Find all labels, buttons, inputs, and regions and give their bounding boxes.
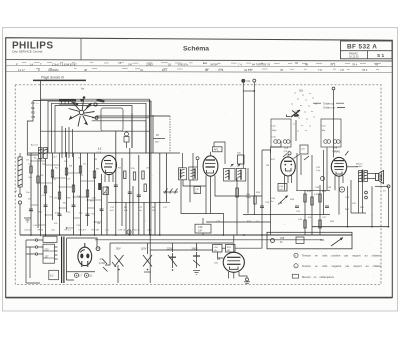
- volume pot arrow: [278, 196, 288, 205]
- svg-text:78 4: 78 4: [352, 62, 358, 66]
- svg-text:78: 78: [280, 68, 283, 72]
- svg-text:DC —: DC —: [31, 101, 39, 105]
- stray contact marks: [103, 259, 108, 272]
- svg-text:1,2kΩ: 1,2kΩ: [99, 263, 105, 265]
- band indicator bar Plage Sonore III: [33, 76, 86, 91]
- svg-text:C59: C59: [280, 238, 285, 240]
- terminal 18: [84, 273, 92, 278]
- parts table dash marks: [22, 63, 381, 70]
- IF transformer S10 secondary: [236, 164, 246, 181]
- resistor R1: [30, 166, 32, 173]
- svg-text:L1: L1: [98, 147, 102, 151]
- wire right top vertical: [332, 87, 335, 157]
- fuse circle: [96, 247, 100, 251]
- capacitor C7: [72, 205, 76, 207]
- svg-text:7e 3: 7e 3: [330, 62, 336, 66]
- svg-text:Accord: Accord: [31, 144, 38, 147]
- svg-text:127: 127: [45, 256, 50, 259]
- svg-text:48: 48: [305, 62, 308, 66]
- wire V2 anode run: [181, 153, 271, 235]
- capacitor C30 box: [195, 218, 211, 235]
- tube V1 UCH42: [102, 155, 117, 182]
- resistor R4: [51, 170, 53, 177]
- PHILIPS logo: [12, 40, 53, 53]
- svg-text:78 3: 78 3: [362, 68, 368, 72]
- coil L2 dark bar left: [59, 99, 76, 104]
- mains selector 220V: [167, 246, 178, 271]
- dial lamp F11: [242, 79, 251, 168]
- model box BF 532 A: [341, 41, 393, 59]
- svg-text:16.11.53: 16.11.53: [349, 55, 359, 58]
- svg-text:C19 1n: C19 1n: [118, 230, 126, 232]
- tube V3 UBC41: [281, 157, 296, 190]
- capacitor C43: [325, 206, 329, 208]
- svg-text:44: 44: [375, 62, 378, 66]
- tone control box: [267, 232, 352, 249]
- ground chassis left: [24, 218, 31, 222]
- transformer left terminals: [26, 239, 43, 283]
- dial lamp F12: [243, 79, 256, 215]
- svg-text:R9 0,1: R9 0,1: [65, 230, 72, 232]
- wire short connectors left block: [31, 161, 102, 228]
- svg-text:C16 4n7: C16 4n7: [78, 230, 87, 232]
- speaker wires: [363, 174, 376, 214]
- left cluster labels: [28, 164, 108, 228]
- capacitor C8 link: [154, 134, 166, 144]
- svg-text:2M: 2M: [97, 223, 100, 225]
- small box mid: [237, 153, 244, 165]
- switch feed wires: [130, 243, 233, 254]
- svg-text:4 8: 4 8: [340, 68, 344, 72]
- svg-text:F11: F11: [247, 80, 252, 83]
- svg-text:C14 2n: C14 2n: [24, 230, 32, 232]
- svg-text:Dép SERVICE Central: Dép SERVICE Central: [12, 50, 42, 54]
- svg-text:Tension en volts positive: Tension en volts positive par rapport au…: [302, 254, 381, 258]
- svg-text:0,1μ: 0,1μ: [316, 170, 321, 172]
- svg-text:44 4 8: 44 4 8: [244, 68, 252, 72]
- capacitor C9: [86, 214, 90, 216]
- header divider lines: [6, 38, 393, 72]
- svg-text:95V: 95V: [116, 246, 121, 250]
- capacitor C34 box: [278, 184, 287, 192]
- legend line 1 positive: [294, 253, 381, 257]
- capacitor C5: [44, 205, 48, 207]
- svg-text:747: 747: [128, 62, 133, 66]
- svg-text:14 17: 14 17: [18, 68, 25, 72]
- mid cluster labels: [110, 168, 168, 232]
- capacitor C11: [114, 185, 118, 187]
- tuning gang scatter dots: [292, 90, 317, 132]
- resistor R9: [86, 190, 88, 197]
- wire horizontal bus grid: [28, 116, 180, 153]
- loudspeaker: [376, 171, 384, 184]
- resistor R12: [133, 172, 135, 180]
- svg-text:R33: R33: [320, 240, 325, 242]
- mains primary winding: [43, 236, 58, 263]
- svg-text:0,5M: 0,5M: [55, 213, 60, 215]
- chassis bus main: [20, 235, 352, 240]
- svg-text:UL41: UL41: [334, 150, 341, 154]
- label V4: [334, 150, 341, 154]
- resistor R23: [319, 194, 321, 202]
- svg-text:72: 72: [118, 61, 121, 65]
- resistor R2: [37, 176, 39, 183]
- outer frame border: [6, 38, 393, 298]
- svg-text:R12 0,2: R12 0,2: [132, 230, 140, 232]
- terminal 17: [74, 273, 82, 278]
- resistor R25: [319, 220, 321, 228]
- svg-text:Schéma: Schéma: [183, 46, 209, 53]
- svg-text:34: 34: [140, 68, 143, 72]
- label L1: [97, 147, 103, 155]
- coil can L4: [321, 119, 341, 147]
- frame antenna: [18, 153, 22, 194]
- trimmer C25: [294, 145, 309, 159]
- oscillator section box: [151, 116, 170, 153]
- IF transformer S9 primary: [179, 168, 187, 180]
- label V5: [214, 258, 221, 265]
- small circle left of V4: [321, 177, 325, 181]
- labels mid column: [216, 192, 270, 223]
- resistor R20: [254, 196, 256, 204]
- svg-text:AF1: AF1: [214, 148, 219, 152]
- capacitor C41: [295, 206, 299, 208]
- wire main vertical from band bar: [40, 80, 42, 235]
- svg-text:0,47M: 0,47M: [314, 194, 320, 196]
- resistor R21: [304, 194, 306, 202]
- svg-text:2M: 2M: [266, 165, 269, 167]
- svg-text:Ondes co: Ondes co: [323, 101, 335, 105]
- dashed schematic boundary: [15, 85, 381, 284]
- capacitor C6: [58, 214, 62, 216]
- ground under V5: [239, 276, 250, 283]
- svg-text:E7rr: E7rr: [162, 68, 167, 72]
- wire coil feed: [27, 99, 149, 155]
- svg-text:220: 220: [45, 249, 50, 252]
- svg-text:7 4: 7 4: [238, 62, 242, 66]
- svg-text:100p: 100p: [272, 130, 278, 132]
- resistor R11: [124, 171, 126, 179]
- svg-text:An: An: [81, 87, 85, 91]
- svg-text:200p: 200p: [246, 197, 252, 199]
- svg-text:L4: L4: [334, 146, 338, 150]
- B+ bus right: [312, 226, 389, 228]
- IF transformer S9 secondary: [189, 167, 198, 180]
- svg-text:1M: 1M: [69, 166, 72, 168]
- terminal above IF1: [183, 153, 200, 168]
- wire bottom left runs: [41, 235, 131, 283]
- tube V2 UF41: [203, 156, 218, 186]
- resistor R13: [142, 171, 144, 179]
- capacitor C19 box: [194, 187, 201, 194]
- svg-text:Plage Sonore III: Plage Sonore III: [41, 76, 64, 80]
- legend line 3 measured: [292, 274, 334, 279]
- svg-text:1M: 1M: [94, 159, 97, 161]
- oscillator coil L2a: [31, 144, 47, 160]
- svg-text:48: 48: [84, 68, 87, 72]
- vertical wires left block: [31, 152, 102, 235]
- svg-text:R10 2M: R10 2M: [92, 230, 100, 232]
- switch bar S5: [98, 183, 108, 195]
- capacitor box C56: [213, 245, 223, 253]
- wire right section runs: [243, 120, 358, 235]
- rectifier loop wire: [67, 238, 98, 280]
- labels above chassis bus: [24, 230, 110, 232]
- band switch spider S1: [69, 96, 99, 126]
- left voltage notes: [31, 101, 39, 119]
- wire twin vertical middle: [150, 99, 151, 235]
- section box S6: [101, 108, 123, 131]
- resistor R3: [44, 186, 46, 193]
- resistor R24: [304, 220, 306, 228]
- junction nodes lower mid: [115, 202, 161, 204]
- label L3: [284, 146, 291, 153]
- mains selector 110V: [141, 246, 153, 272]
- svg-text:R8 1k: R8 1k: [38, 230, 44, 232]
- svg-text:Tension en volts négative: Tension en volts négative par rapport au…: [302, 264, 382, 268]
- label rectifier values: [99, 258, 105, 265]
- svg-text:Mesuré en milliampères: Mesuré en milliampères: [302, 275, 335, 279]
- mid-left vertical wires: [107, 131, 167, 235]
- svg-text:14: 14: [30, 62, 33, 66]
- rectifier tube V6 AZ41: [78, 243, 92, 267]
- svg-text:mobile: mobile: [356, 166, 363, 168]
- svg-text:18: 18: [168, 62, 171, 66]
- wave range legend: [313, 101, 345, 109]
- svg-text:S 1: S 1: [377, 53, 385, 59]
- svg-text:2M: 2M: [227, 250, 230, 252]
- top cap V3: [283, 152, 291, 157]
- output terminal strip: [348, 180, 391, 227]
- resistor R7: [72, 185, 74, 192]
- grid resistor above V1: [124, 132, 129, 148]
- junction dots on chassis: [30, 234, 263, 236]
- svg-text:4 78: 4 78: [218, 68, 224, 72]
- wire vertical 262: [262, 150, 271, 235]
- mains selector 240V: [192, 246, 201, 274]
- bus AVC line: [108, 201, 170, 203]
- resistor R14: [144, 184, 146, 192]
- antenna terminals: [15, 190, 22, 235]
- wires from spider to the right: [92, 118, 150, 153]
- right labels cluster: [266, 159, 350, 223]
- wire bottom center runs: [150, 235, 262, 283]
- svg-text:7 8: 7 8: [318, 68, 322, 72]
- IF transformer S10 primary: [224, 164, 236, 181]
- resistor R22: [311, 197, 313, 205]
- svg-text:L3: L3: [285, 146, 289, 150]
- scan noise specks: [21, 90, 379, 282]
- junction dots left block: [30, 160, 95, 228]
- tuning gang switch arm: [287, 110, 301, 117]
- output transformer S14: [356, 164, 367, 183]
- svg-text:1nF: 1nF: [279, 189, 283, 191]
- legend line 2 negative: [294, 264, 382, 268]
- svg-text:303: 303: [299, 90, 304, 93]
- title Schéma: [183, 46, 209, 53]
- resistor box R31: [226, 245, 236, 253]
- capacitor C13: [137, 195, 141, 197]
- svg-text:34: 34: [295, 61, 298, 65]
- wire bundle under spider: [48, 101, 151, 158]
- svg-text:BF 532 A: BF 532 A: [347, 44, 377, 51]
- grid terminal circle below V4: [339, 187, 344, 192]
- resistor R10: [93, 171, 95, 178]
- capacitor C4: [29, 209, 33, 211]
- svg-text:C2-6: C2-6: [97, 152, 103, 154]
- coil L2 dark bar right: [96, 99, 104, 103]
- svg-text:48: 48: [205, 68, 208, 72]
- power transformer core: [62, 237, 64, 284]
- svg-text:1M: 1M: [152, 210, 155, 212]
- svg-text:Bobine: Bobine: [356, 164, 363, 166]
- band switch contacts row: [163, 189, 178, 194]
- capacitor C10: [100, 209, 104, 211]
- svg-text:110V: 110V: [141, 246, 147, 250]
- svg-text:34784: 34784: [210, 62, 218, 66]
- parts table row 2 text: [18, 68, 368, 72]
- resistor R6: [65, 168, 67, 175]
- svg-text:84 7834783 78: 84 7834783 78: [252, 62, 270, 66]
- mains selector 95V: [112, 246, 124, 270]
- resistor R15: [236, 188, 239, 197]
- resistor R5: [58, 192, 60, 199]
- capacitor C28: [260, 206, 264, 208]
- coil can L3: [271, 119, 291, 147]
- heater winding 6.3V: [49, 270, 59, 279]
- component value labels left block: [26, 156, 97, 215]
- capacitor C12: [128, 192, 132, 194]
- tube V5 UY42: [223, 252, 244, 278]
- svg-text:1nF: 1nF: [198, 230, 203, 233]
- wire vertical x132: [132, 113, 153, 153]
- heater node circle: [127, 230, 131, 234]
- parts table row 1 text: [16, 61, 378, 66]
- label box above V2: [211, 142, 226, 164]
- label L4: [332, 146, 339, 153]
- tube V4 UL41: [331, 157, 346, 190]
- resistor R8: [79, 166, 81, 173]
